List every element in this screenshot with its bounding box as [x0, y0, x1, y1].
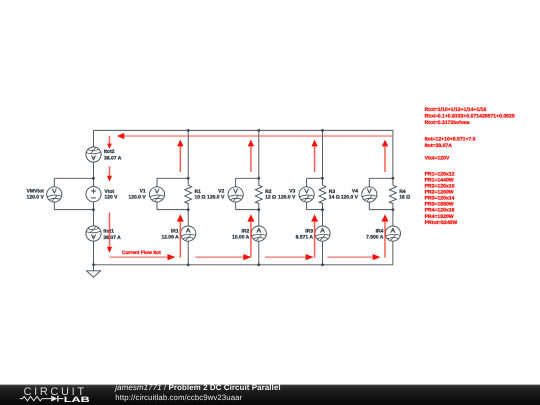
- node junction branch 2 loop bottom: [257, 208, 260, 211]
- svg-text:LAB: LAB: [64, 395, 91, 404]
- resistor R4: [390, 178, 397, 209]
- current arrow bottom rail segment 4: [327, 256, 372, 258]
- wire voltmeter VMVtot loop top: [54, 177, 93, 179]
- svg-text:PR2=120x10: PR2=120x10: [425, 184, 455, 190]
- svg-text:7.500 A: 7.500 A: [366, 235, 384, 241]
- ground: [93, 265, 95, 271]
- svg-text:Rtot=1/10+1/12+1/14+1/16: Rtot=1/10+1/12+1/14+1/16: [425, 107, 487, 113]
- svg-text:120.0 V: 120.0 V: [207, 195, 225, 201]
- svg-text:Rtot=0.1+0.8333+0.071428571+0.: Rtot=0.1+0.8333+0.071428571+0.0625: [425, 114, 515, 120]
- current arrow branch 1 up top: [179, 146, 181, 172]
- svg-text:Itot=12+10+8.571+7.5: Itot=12+10+8.571+7.5: [425, 137, 476, 143]
- wire branch 3 upper: [322, 130, 324, 178]
- ammeter Itot2: [86, 147, 101, 162]
- svg-text:PR4=120x16: PR4=120x16: [425, 208, 455, 214]
- node junction branch 3 top rail: [321, 129, 324, 132]
- node junction branch 3 loop top: [321, 177, 324, 180]
- voltmeter V4: [362, 187, 377, 202]
- svg-text:120.0 V: 120.0 V: [27, 195, 45, 201]
- svg-text:10 Ω: 10 Ω: [195, 195, 206, 201]
- svg-text:16 Ω: 16 Ω: [399, 195, 410, 201]
- wire left column bottom segment: [93, 241, 95, 265]
- current arrow top rail leftward: [124, 135, 392, 137]
- svg-text:IR3: IR3: [305, 228, 313, 234]
- node junction left loop bottom: [92, 208, 95, 211]
- svg-text:12.00 A: 12.00 A: [161, 235, 179, 241]
- svg-text:IR1: IR1: [171, 228, 179, 234]
- svg-text:PR1=120x12: PR1=120x12: [425, 171, 455, 177]
- wire branch 4 lower: [392, 241, 394, 265]
- svg-text:8.571 A: 8.571 A: [296, 235, 314, 241]
- resistor R3: [319, 178, 326, 209]
- current arrow branch 3 up top: [314, 146, 316, 172]
- wire bottom rail: [94, 264, 393, 266]
- svg-text:Rtot=0.3172kohms: Rtot=0.3172kohms: [425, 120, 470, 126]
- current arrow branch 2 up top: [250, 146, 252, 172]
- wire branch 1 between resistor and ammeter: [187, 210, 189, 226]
- svg-text:PRtot=6240W: PRtot=6240W: [425, 220, 458, 226]
- wire branch 2 between resistor and ammeter: [258, 210, 260, 226]
- wire branch 2 lower: [258, 241, 260, 265]
- wire branch 3 between resistor and ammeter: [322, 210, 324, 226]
- ammeter IR3: [315, 226, 330, 241]
- svg-text:Current Flow Itot: Current Flow Itot: [122, 250, 161, 256]
- wire left column top segment: [93, 130, 95, 147]
- wire branch 4 upper: [392, 130, 394, 178]
- node junction branch 3 loop bottom: [321, 208, 324, 211]
- current arrow bottom rail segment 2: [195, 256, 243, 258]
- current arrow bottom rail segment 1: [109, 256, 167, 258]
- ammeter IR2: [251, 226, 266, 241]
- wire voltmeter V4 loop: [369, 177, 393, 179]
- wire branch 3 lower: [322, 241, 324, 265]
- wire voltmeter VMVtot loop bottom: [53, 202, 55, 210]
- current arrow branch 1 up bottom: [179, 222, 181, 258]
- node junction branch 2 bottom rail: [257, 263, 260, 266]
- node junction branch 1 loop bottom: [187, 208, 190, 211]
- svg-text:38.07 A: 38.07 A: [104, 156, 122, 162]
- wire left column between Itot2 and Vtot: [93, 162, 95, 187]
- voltmeter V1: [149, 187, 164, 202]
- resistor R2: [255, 178, 262, 209]
- wire top rail: [94, 129, 393, 131]
- node junction branch 1 bottom rail: [187, 263, 190, 266]
- wire left column between Vtot and Itot1: [93, 202, 95, 226]
- node junction branch 4 loop top: [392, 177, 395, 180]
- node junction ground: [92, 263, 95, 266]
- svg-text:38.07 A: 38.07 A: [103, 235, 121, 241]
- svg-text:PR2=1200W: PR2=1200W: [425, 190, 454, 196]
- footer bar: [0, 385, 540, 405]
- voltmeter VMVtot: [47, 187, 62, 202]
- svg-text:Itot2: Itot2: [104, 149, 115, 155]
- current arrow left column down 3: [109, 213, 111, 247]
- ammeter IR1: [181, 226, 196, 241]
- svg-text:IR2: IR2: [242, 228, 250, 234]
- node junction branch 1 top rail: [187, 129, 190, 132]
- svg-text:120 V: 120 V: [104, 195, 118, 201]
- resistor R1: [185, 178, 192, 209]
- svg-text:VMVtot: VMVtot: [27, 189, 45, 195]
- wire voltmeter V3 loop: [307, 177, 323, 179]
- svg-text:jamesm1771 / Problem 2 DC Circ: jamesm1771 / Problem 2 DC Circuit Parall…: [114, 383, 280, 392]
- wire branch 4 between resistor and ammeter: [392, 210, 394, 226]
- ammeter IR4: [385, 226, 400, 241]
- wire branch 1 upper: [187, 130, 189, 178]
- svg-text:Vtot=120V: Vtot=120V: [425, 156, 450, 162]
- voltmeter V2: [228, 187, 243, 202]
- wire branch 2 upper: [258, 130, 260, 178]
- svg-text:120.0 V: 120.0 V: [341, 195, 359, 201]
- svg-text:10.00 A: 10.00 A: [232, 235, 250, 241]
- node junction left loop top: [92, 177, 95, 180]
- current arrow branch 4 up top: [384, 146, 386, 172]
- svg-text:Itot=38.07A: Itot=38.07A: [425, 143, 453, 149]
- svg-text:http://circuitlab.com/ccbc9wv2: http://circuitlab.com/ccbc9wv23uaar: [115, 393, 242, 402]
- voltage source Vtot: [86, 187, 101, 202]
- node junction branch 3 bottom rail: [321, 263, 324, 266]
- logo diode: [51, 396, 57, 402]
- svg-text:120.0 V: 120.0 V: [278, 195, 296, 201]
- current arrow left column down 1: [109, 136, 111, 144]
- wire branch 1 lower: [187, 241, 189, 265]
- wire voltmeter V1 loop: [157, 177, 188, 179]
- logo resistor zigzag: [20, 396, 52, 400]
- wire voltmeter V2 loop: [236, 177, 259, 179]
- current arrow branch 3 up bottom: [314, 222, 316, 258]
- svg-text:14 Ω: 14 Ω: [329, 195, 340, 201]
- current arrow left column down 2: [109, 167, 111, 176]
- svg-text:IR4: IR4: [376, 228, 384, 234]
- current arrow branch 4 up bottom: [384, 222, 386, 258]
- current arrow branch 2 up bottom: [250, 222, 252, 258]
- svg-text:120.0 V: 120.0 V: [128, 195, 146, 201]
- node junction branch 2 top rail: [257, 129, 260, 132]
- ammeter Itot1: [86, 226, 101, 241]
- node junction branch 4 loop bottom: [392, 208, 395, 211]
- svg-text:12 Ω: 12 Ω: [265, 195, 276, 201]
- current arrow bottom rail segment 3: [265, 256, 306, 258]
- node junction branch 2 loop top: [257, 177, 260, 180]
- node junction branch 1 loop top: [187, 177, 190, 180]
- voltmeter V3: [299, 187, 314, 202]
